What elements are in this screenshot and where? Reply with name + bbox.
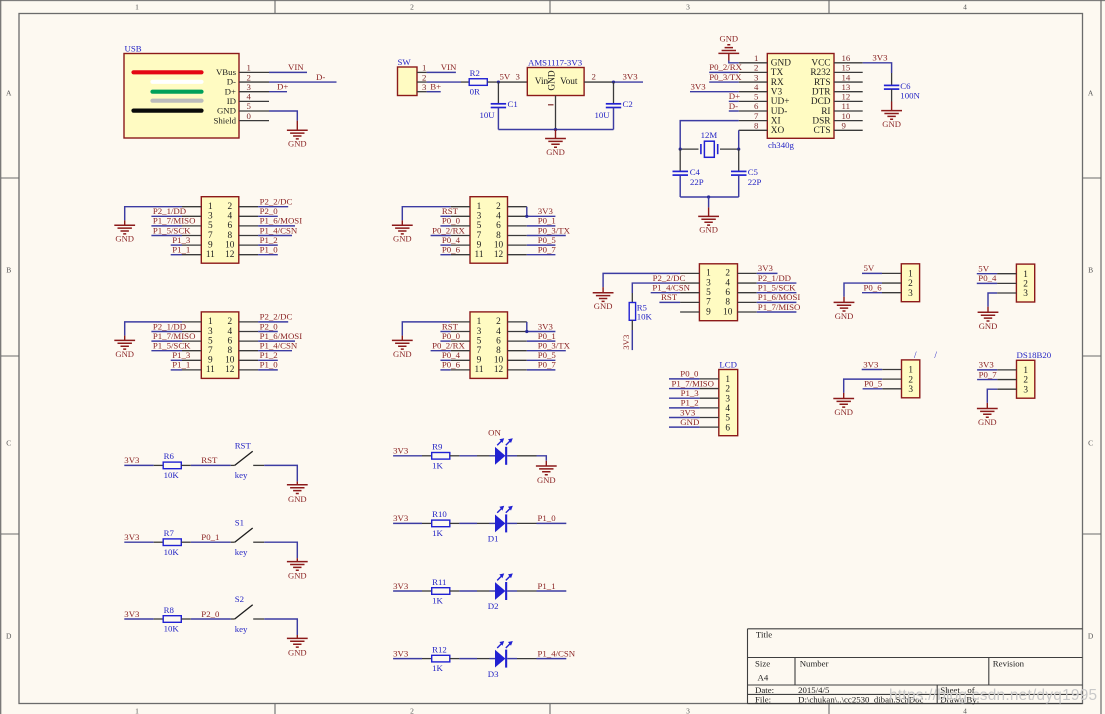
svg-text:10: 10 (225, 356, 235, 366)
svg-text:12M: 12M (701, 130, 718, 140)
wire P1 pin5 (151, 225, 182, 227)
wire ch340g pin4 (690, 91, 739, 93)
svg-text:3: 3 (422, 82, 427, 92)
svg-text:File:: File: (755, 695, 771, 705)
svg-text:2: 2 (725, 269, 730, 279)
svg-text:C2: C2 (623, 99, 633, 109)
wire P1 pin10 (258, 244, 278, 246)
svg-text:P0_2/RX: P0_2/RX (432, 225, 465, 235)
svg-text:P0_5: P0_5 (538, 350, 557, 360)
svg-text:P2_2/DC: P2_2/DC (260, 312, 293, 322)
svg-text:R6: R6 (164, 451, 175, 461)
svg-text:VBus: VBus (216, 67, 237, 77)
svg-text:3: 3 (208, 212, 213, 222)
wire P5 pin8 (757, 301, 797, 303)
ground GND under regulator (555, 130, 557, 139)
ground GND at P2 (124, 336, 126, 341)
svg-text:A: A (6, 89, 12, 98)
svg-text:B: B (1088, 266, 1093, 275)
svg-text:D2: D2 (488, 601, 499, 611)
wire P3 pin5 (440, 225, 450, 227)
svg-text:3V3: 3V3 (872, 53, 888, 63)
svg-text:UD+: UD+ (771, 97, 790, 107)
svg-text:3: 3 (247, 82, 252, 92)
svg-text:C4: C4 (690, 167, 701, 177)
svg-text:S2: S2 (235, 594, 244, 604)
svg-text:D: D (6, 632, 12, 641)
connector P6 3-pin header (882, 264, 920, 302)
wire P2 pin3 (151, 331, 182, 333)
resistor R12 1K (422, 644, 459, 673)
svg-text:5: 5 (725, 414, 730, 424)
svg-text:12: 12 (494, 250, 504, 260)
svg-text:RST: RST (442, 321, 459, 331)
wire P4 pin2 to pin4 tie 3V3 (527, 322, 556, 332)
svg-text:P0_7: P0_7 (538, 245, 557, 255)
wire LCD pin2 (669, 388, 700, 390)
svg-text:P0_2/RX: P0_2/RX (432, 341, 465, 351)
regulator U AMS1117-3V3 (527, 57, 613, 129)
svg-text:GND: GND (680, 417, 699, 427)
svg-text:10K: 10K (637, 312, 653, 322)
svg-text:9: 9 (477, 356, 482, 366)
svg-text:R8: R8 (164, 605, 175, 615)
svg-text:10K: 10K (164, 470, 180, 480)
svg-text:3V3: 3V3 (393, 513, 409, 523)
svg-text:13: 13 (842, 82, 851, 92)
wire 3V3 to R9 (393, 455, 422, 457)
svg-text:3: 3 (686, 707, 690, 714)
svg-text:4: 4 (496, 327, 501, 337)
wire 3V3 to R12 (393, 658, 422, 660)
svg-text:5: 5 (208, 336, 213, 346)
svg-text:P0_3/TX: P0_3/TX (709, 72, 742, 82)
svg-text:P1_2: P1_2 (260, 235, 278, 245)
wire P4 pin5 (440, 340, 450, 342)
svg-text:10K: 10K (164, 547, 180, 557)
svg-text:9: 9 (477, 240, 482, 250)
wire P5 pin1 to ground (603, 273, 680, 287)
svg-text:3: 3 (725, 394, 730, 404)
svg-text:3V3: 3V3 (538, 321, 554, 331)
LED D2 (477, 573, 537, 611)
svg-text:P0_0: P0_0 (442, 331, 461, 341)
svg-text:3: 3 (754, 72, 759, 82)
capacitor C1 10U (480, 82, 518, 129)
svg-text:3V3: 3V3 (124, 609, 140, 619)
svg-text:VIN: VIN (288, 62, 304, 72)
svg-text:B: B (6, 266, 11, 275)
svg-text:5V: 5V (978, 264, 989, 274)
svg-text:12: 12 (225, 250, 235, 260)
wire P5 pin10 (757, 311, 797, 313)
svg-text:GND: GND (546, 147, 565, 157)
wire P4 pin7 (431, 350, 451, 352)
connector SW (398, 57, 428, 96)
svg-text:3: 3 (908, 385, 913, 395)
svg-text:5: 5 (706, 288, 711, 298)
svg-text:GND: GND (537, 475, 556, 485)
wire LCD pin1 (669, 378, 700, 380)
wire P3 pin7 (431, 235, 451, 237)
svg-text:22P: 22P (748, 177, 762, 187)
svg-text:4: 4 (725, 278, 730, 288)
connector P7 3-pin header (997, 264, 1035, 302)
svg-text:3V3: 3V3 (979, 360, 995, 370)
wire P2 pin5 (151, 340, 182, 342)
svg-text:1: 1 (208, 317, 213, 327)
wire P4 pin8 (527, 350, 566, 352)
wire 3V3 to R10 (393, 522, 422, 524)
svg-text:P1_3: P1_3 (681, 388, 700, 398)
wire P3 pin1 to ground (402, 207, 450, 221)
svg-text:P0_6: P0_6 (442, 245, 461, 255)
wire P2 pin6 (258, 340, 295, 342)
svg-text:P0_1: P0_1 (538, 216, 556, 226)
svg-text:CTS: CTS (813, 126, 830, 136)
svg-text:10: 10 (225, 240, 235, 250)
svg-text:3V3: 3V3 (680, 407, 696, 417)
svg-text:3V3: 3V3 (621, 334, 631, 350)
svg-text:5: 5 (477, 336, 482, 346)
svg-text:P1_0: P1_0 (260, 360, 279, 370)
wire switch RST to ground (264, 465, 297, 481)
svg-text:P0_7: P0_7 (538, 360, 557, 370)
svg-text:RST: RST (442, 206, 459, 216)
svg-text:6: 6 (227, 221, 232, 231)
wire P1 pin3 (151, 215, 182, 217)
svg-text:P2_0: P2_0 (260, 206, 279, 216)
wire USB pin5 to ground (269, 111, 297, 121)
svg-text:GND: GND (978, 417, 997, 427)
wire P5 pin3 to R5 (632, 283, 680, 293)
svg-text:P0_1: P0_1 (538, 331, 556, 341)
svg-text:RX: RX (771, 78, 784, 88)
svg-text:6: 6 (496, 221, 501, 231)
wire P3 pin2 to pin4 tie 3V3 (527, 207, 556, 217)
power ground symbol above ch340g pin1 (718, 34, 739, 61)
wire 5V node (498, 81, 527, 83)
svg-text:P0_4: P0_4 (442, 350, 461, 360)
svg-text:VIN: VIN (441, 62, 457, 72)
wire LED D3 to P1_4/CSN (537, 658, 567, 660)
svg-text:key: key (235, 547, 248, 557)
svg-text:7: 7 (477, 231, 482, 241)
connector USB (124, 44, 269, 139)
svg-text:key: key (235, 470, 248, 480)
svg-text:2: 2 (725, 385, 730, 395)
svg-text:GND: GND (393, 234, 412, 244)
wire LCD pin6 (669, 426, 700, 428)
wire LCD pin3 (669, 397, 700, 399)
svg-text:LCD: LCD (719, 359, 737, 369)
wire R10 to LED D1 (459, 522, 477, 524)
wire 3V3 to R8 (124, 618, 153, 620)
connector P5 10-pin header (680, 264, 757, 321)
svg-text:B+: B+ (430, 82, 441, 92)
svg-text:R7: R7 (164, 528, 175, 538)
wire P3 pin8 (527, 235, 566, 237)
capacitor C5 22P (731, 149, 761, 197)
svg-text:XO: XO (771, 126, 785, 136)
svg-text:GND: GND (699, 225, 718, 235)
svg-text:GND: GND (217, 106, 236, 116)
wire R6 to switch (191, 464, 231, 466)
svg-text:/: / (934, 350, 937, 360)
ground GND at LED ON (545, 461, 547, 466)
svg-text:9: 9 (208, 356, 213, 366)
svg-text:2: 2 (754, 63, 758, 73)
svg-text:1: 1 (725, 375, 730, 385)
ground GND at P9 (986, 403, 988, 409)
svg-text:9: 9 (706, 307, 711, 317)
wire stub to ground (708, 197, 710, 207)
wire P2 pin7 (151, 350, 182, 352)
wire ch340g pin6 (729, 110, 739, 112)
svg-text:/: / (914, 350, 917, 360)
wire P2 pin10 (258, 359, 278, 361)
svg-text:P0_3/TX: P0_3/TX (538, 225, 571, 235)
svg-text:P1_4/CSN: P1_4/CSN (260, 225, 298, 235)
svg-text:XI: XI (771, 116, 781, 126)
svg-text:4: 4 (496, 212, 501, 222)
svg-text:1: 1 (135, 3, 139, 12)
junction at 5V node (497, 80, 500, 83)
wire D- from USB pin2 (269, 81, 337, 83)
svg-text:3V3: 3V3 (758, 263, 774, 273)
svg-text:GND: GND (834, 407, 853, 417)
svg-text:3V3: 3V3 (623, 71, 639, 81)
svg-text:6: 6 (227, 336, 232, 346)
svg-text:11: 11 (206, 365, 215, 375)
wire ch340g pin16 3V3 (863, 63, 892, 73)
svg-text:C: C (1088, 439, 1093, 448)
svg-text:P1_1: P1_1 (172, 245, 190, 255)
wire 3V3 to R7 (124, 541, 153, 543)
svg-text:4: 4 (754, 82, 759, 92)
svg-text:P0_3/TX: P0_3/TX (538, 341, 571, 351)
svg-text:3V3: 3V3 (538, 206, 554, 216)
svg-text:11: 11 (475, 250, 484, 260)
svg-text:4: 4 (963, 707, 967, 714)
svg-text:16: 16 (842, 53, 851, 63)
LED ON (477, 438, 537, 465)
svg-text:10U: 10U (595, 110, 611, 120)
svg-text:5V: 5V (864, 263, 875, 273)
ground GND at P8 (843, 393, 845, 399)
svg-text:7: 7 (706, 298, 711, 308)
svg-text:P1_7/MISO: P1_7/MISO (153, 331, 196, 341)
svg-text:4: 4 (227, 327, 232, 337)
wire P6 pin1 (862, 272, 882, 274)
wire ch340g pin7 to crystal (680, 121, 739, 149)
svg-text:10: 10 (494, 356, 504, 366)
svg-text:3V3: 3V3 (124, 455, 140, 465)
svg-text:1: 1 (477, 202, 482, 212)
wire P9 pin1 (977, 369, 997, 371)
svg-text:10: 10 (842, 111, 851, 121)
wire P7 pin1 (977, 273, 997, 275)
svg-text:2: 2 (247, 72, 251, 82)
svg-text:P0_6: P0_6 (864, 283, 883, 293)
svg-text:15: 15 (842, 63, 851, 73)
resistor R6 10K (154, 451, 191, 480)
svg-text:P2_2/DC: P2_2/DC (653, 273, 686, 283)
svg-text:D3: D3 (488, 669, 499, 679)
svg-text:DSR: DSR (812, 116, 831, 126)
svg-text:P1_2: P1_2 (681, 398, 699, 408)
resistor R8 10K (154, 605, 191, 634)
wire P3 pin6 (527, 225, 556, 227)
svg-text:P0_4: P0_4 (978, 273, 997, 283)
svg-text:8: 8 (227, 346, 232, 356)
svg-text:TX: TX (771, 68, 784, 78)
svg-text:5: 5 (754, 92, 759, 102)
svg-text:22P: 22P (690, 177, 704, 187)
ground GND at C6 (891, 102, 893, 111)
wire ch340g pin8 to crystal (738, 130, 740, 149)
wire P1 pin7 (151, 235, 182, 237)
svg-text:D1: D1 (488, 534, 499, 544)
svg-text:2: 2 (410, 707, 414, 714)
svg-text:8: 8 (496, 346, 501, 356)
svg-text:P0_6: P0_6 (442, 360, 461, 370)
wire crystal ground rail (680, 196, 739, 198)
wire P2 pin11 (171, 369, 182, 371)
svg-text:2: 2 (1023, 376, 1028, 386)
svg-text:P0_0: P0_0 (680, 369, 699, 379)
svg-text:9: 9 (842, 121, 847, 131)
wire P3 pin9 (440, 244, 450, 246)
svg-text:2: 2 (908, 279, 913, 289)
svg-text:Vin: Vin (535, 77, 549, 87)
svg-text:RST: RST (201, 455, 218, 465)
svg-text:P1_0: P1_0 (538, 513, 557, 523)
wire 3V3 to R6 (124, 464, 153, 466)
wire ground rail under regulator (498, 129, 613, 131)
svg-text:ch340g: ch340g (768, 140, 794, 150)
svg-text:Revision: Revision (993, 659, 1025, 669)
connector P1 12-pin header (182, 197, 258, 264)
ground GND at USB (296, 121, 298, 131)
junction right of crystal (737, 148, 740, 151)
svg-text:D-: D- (227, 77, 236, 87)
svg-text:GND: GND (115, 234, 134, 244)
svg-text:P1_4/CSN: P1_4/CSN (260, 341, 298, 351)
svg-text:3: 3 (1023, 289, 1028, 299)
wire P1 pin9 (171, 244, 182, 246)
wire SW pin1 (427, 71, 456, 73)
svg-text:8: 8 (496, 231, 501, 241)
wire VIN from USB pin1 (269, 71, 307, 73)
svg-text:1: 1 (1023, 270, 1028, 280)
svg-text:Number: Number (800, 659, 829, 669)
resistor R2 0R (461, 68, 498, 97)
wire P5 pin5 (651, 292, 680, 294)
wire P4 pin10 (527, 359, 556, 361)
LED D3 (477, 641, 537, 679)
svg-text:GND: GND (548, 70, 558, 90)
svg-text:1K: 1K (432, 528, 443, 538)
svg-text:P1_0: P1_0 (260, 245, 279, 255)
wire LED D1 to P1_0 (537, 522, 567, 524)
svg-text:1: 1 (208, 202, 213, 212)
svg-text:P0_5: P0_5 (864, 379, 883, 389)
svg-text:P1_5/SCK: P1_5/SCK (758, 283, 796, 293)
wire P9 pin2 (977, 379, 997, 381)
svg-text:2: 2 (410, 3, 414, 12)
svg-text:RI: RI (821, 107, 830, 117)
svg-text:Vout: Vout (560, 77, 578, 87)
wire LCD pin5 (669, 417, 700, 419)
wire P5 pin6 (757, 292, 797, 294)
connector LCD 6-pin header (700, 359, 738, 435)
svg-text:9: 9 (208, 240, 213, 250)
ground GND at P5 (602, 287, 604, 293)
svg-text:https://blog.csdn.net/dyq1995: https://blog.csdn.net/dyq1995 (889, 687, 1097, 704)
svg-text:GND: GND (288, 494, 307, 504)
svg-text:R12: R12 (432, 644, 447, 654)
svg-text:2: 2 (227, 317, 232, 327)
svg-text:UD-: UD- (771, 107, 788, 117)
svg-text:P0_1: P0_1 (201, 532, 219, 542)
wire switch S2 to ground (264, 619, 297, 635)
svg-text:3V3: 3V3 (393, 648, 409, 658)
svg-text:8: 8 (725, 298, 730, 308)
svg-text:P0_0: P0_0 (442, 216, 461, 226)
wire R5 to 3V3 (631, 330, 633, 350)
svg-text:GND: GND (771, 59, 791, 69)
svg-text:DTR: DTR (812, 88, 831, 98)
ground GND at S2 (296, 635, 298, 638)
connector P4 12-pin header (451, 312, 527, 379)
svg-text:5: 5 (247, 101, 252, 111)
resistor R9 1K (422, 442, 459, 471)
svg-text:6: 6 (725, 423, 730, 433)
wire LCD pin4 (669, 407, 700, 409)
svg-text:6: 6 (725, 288, 730, 298)
wire P2 pin12 (258, 369, 278, 371)
svg-text:3: 3 (477, 212, 482, 222)
svg-text:12: 12 (842, 92, 851, 102)
IC U ch340g (739, 53, 863, 150)
svg-text:P1_7/MISO: P1_7/MISO (153, 216, 196, 226)
svg-text:1: 1 (706, 269, 711, 279)
wire P4 pin1 to ground (402, 322, 450, 336)
svg-text:Size: Size (755, 659, 770, 669)
wire P6 pin2 to ground (844, 283, 882, 297)
svg-text:GND: GND (393, 349, 412, 359)
svg-text:C: C (6, 439, 11, 448)
svg-text:C1: C1 (508, 99, 518, 109)
ground GND at S1 (296, 558, 298, 561)
svg-text:1: 1 (477, 317, 482, 327)
wire P1 pin12 (258, 254, 278, 256)
svg-text:P0_4: P0_4 (442, 235, 461, 245)
svg-text:P1_3: P1_3 (172, 350, 191, 360)
wire P3 pin12 (527, 254, 556, 256)
svg-text:D+: D+ (729, 91, 740, 101)
svg-text:1: 1 (135, 707, 139, 714)
svg-text:10U: 10U (480, 110, 496, 120)
svg-text:A: A (1088, 89, 1094, 98)
svg-text:ON: ON (488, 427, 501, 437)
svg-text:3: 3 (706, 278, 711, 288)
svg-text:Title: Title (756, 630, 772, 640)
svg-text:3V3: 3V3 (393, 581, 409, 591)
junction at P3 pin4 (525, 215, 528, 218)
wire P4 pin11 (440, 369, 450, 371)
